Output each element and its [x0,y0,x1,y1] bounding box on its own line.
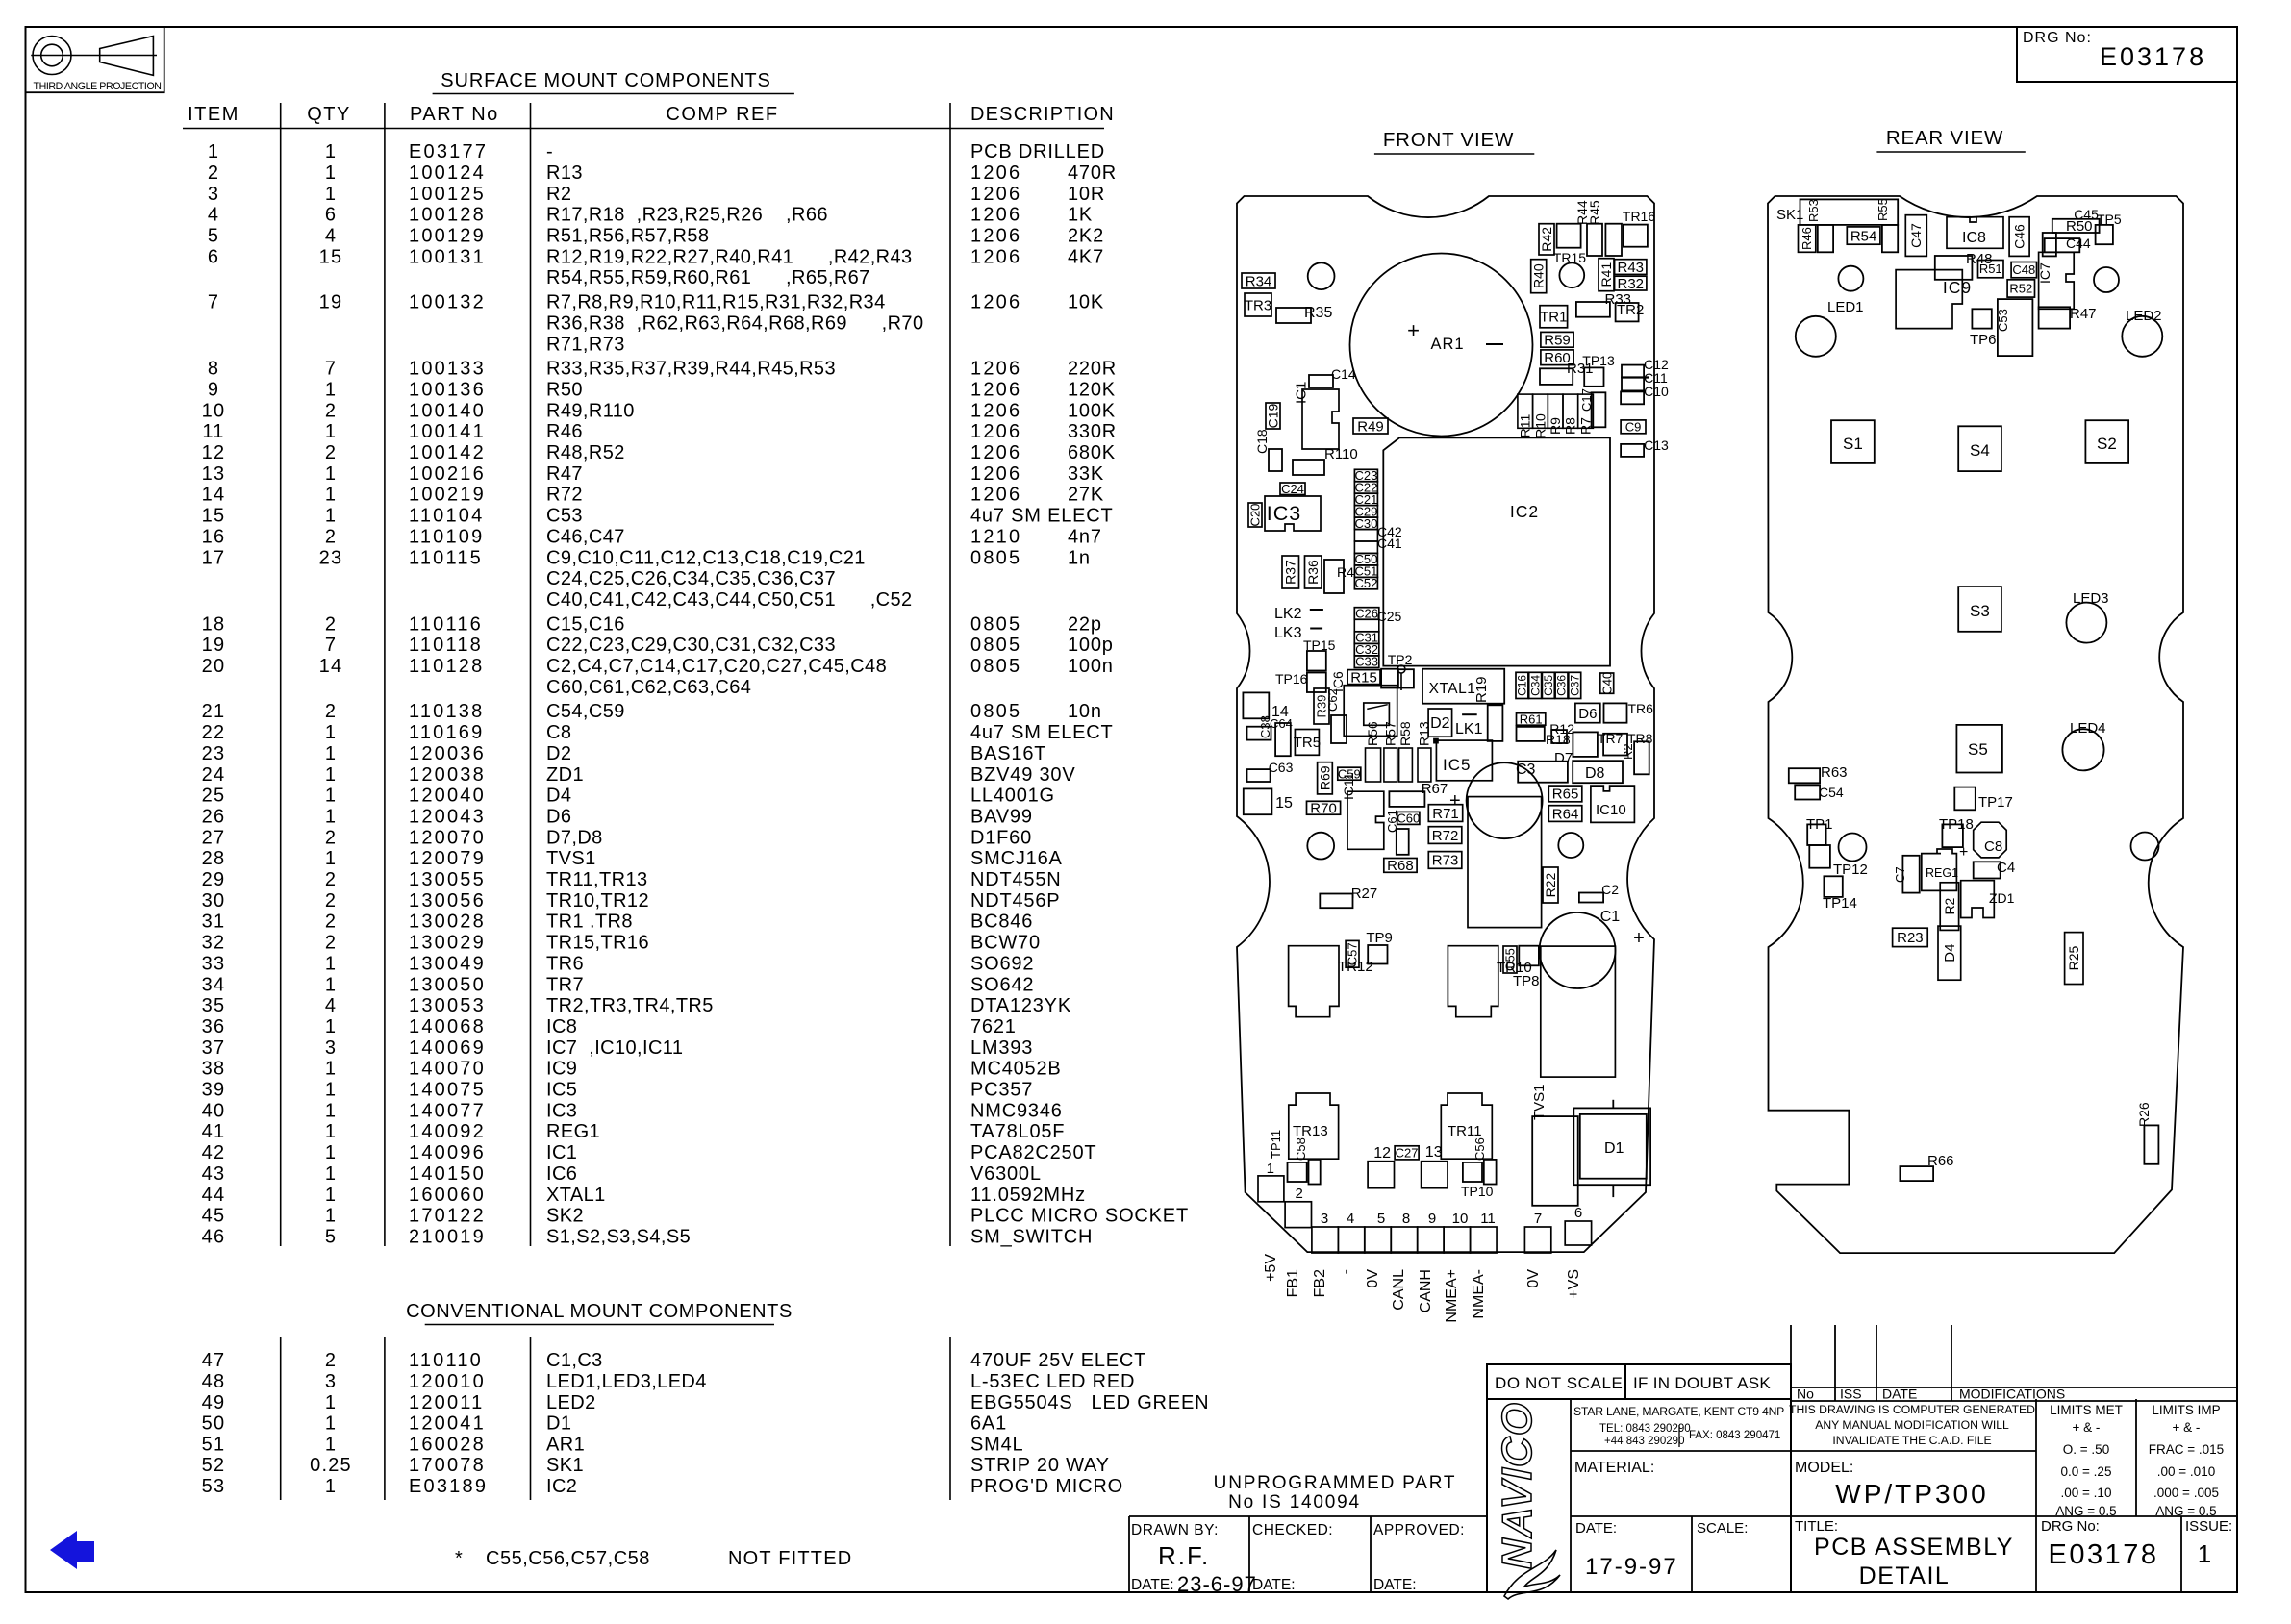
svg-text:46: 46 [202,1226,226,1247]
svg-text:7: 7 [1534,1211,1542,1227]
resistor R69 label [1318,762,1333,794]
svg-text:1: 1 [325,463,337,485]
svg-text:STRIP 20 WAY: STRIP 20 WAY [970,1455,1110,1476]
svg-text:12: 12 [1373,1145,1391,1162]
LED4 [2062,729,2103,770]
svg-text:C1: C1 [1600,909,1621,925]
svg-text:LIMITS IMP: LIMITS IMP [2152,1403,2220,1417]
svg-text:DETAIL: DETAIL [1859,1562,1951,1589]
svg-text:R110: R110 [1324,446,1358,462]
link LK1 [1462,713,1477,715]
svg-text:DATE:: DATE: [1373,1577,1417,1593]
svg-text:31: 31 [202,912,226,933]
resistor R44 [1587,224,1602,256]
svg-text:14: 14 [319,656,343,677]
svg-text:INVALIDATE THE C.A.D. FILE: INVALIDATE THE C.A.D. FILE [1832,1434,1991,1447]
svg-text:TEL: 0843 290290: TEL: 0843 290290 [1599,1423,1691,1435]
svg-text:9: 9 [208,379,219,400]
svg-text:IC5: IC5 [1443,756,1471,774]
svg-text:R9: R9 [1548,417,1563,435]
zener ZD1 [1961,881,1995,918]
capacitor C59 label [1338,767,1361,780]
opto IC5 [1436,740,1492,781]
svg-text:THIRD ANGLE PROJECTION: THIRD ANGLE PROJECTION [34,81,162,92]
LED3 [2066,603,2106,643]
svg-text:E03178: E03178 [2049,1539,2159,1570]
svg-text:SO692: SO692 [970,953,1034,974]
svg-text:XTAL1: XTAL1 [1429,681,1476,697]
svg-text:5: 5 [1377,1211,1385,1227]
resistor R25 label [2065,933,2083,985]
third angle projection icon frustum [100,37,154,76]
svg-text:LED2: LED2 [546,1392,596,1413]
svg-text:C15,C16: C15,C16 [546,613,625,635]
svg-text:D4: D4 [1942,944,1958,962]
resistor R18 [1551,730,1567,743]
svg-text:3: 3 [208,184,219,205]
svg-text:TR6: TR6 [1628,701,1654,716]
svg-text:R33,R35,R37,R39,R44,R45,R53: R33,R35,R37,R39,R44,R45,R53 [546,359,836,380]
svg-text:2: 2 [325,400,337,421]
svg-text:10: 10 [1452,1211,1469,1227]
svg-text:C25: C25 [1377,609,1402,624]
capacitor C10 [1621,391,1644,404]
component small [1247,727,1271,740]
svg-text:11.0592MHz: 11.0592MHz [970,1185,1086,1206]
svg-text:6: 6 [325,205,337,226]
svg-text:4: 4 [325,995,337,1016]
material box [1571,1515,1791,1517]
svg-text:8: 8 [208,359,219,380]
component square [1324,560,1344,593]
svg-text:TR3: TR3 [1245,297,1271,313]
svg-text:2: 2 [325,890,337,912]
svg-text:R56: R56 [1365,721,1380,746]
SMT header underline [183,128,1104,130]
svg-text:130049: 130049 [409,953,486,974]
capacitor box (unlabelled) [1354,541,1377,553]
svg-text:130050: 130050 [409,974,486,995]
svg-text:19: 19 [319,292,343,313]
connector pin square 9 [1471,1227,1497,1253]
navico column [1570,1399,1572,1592]
svg-text:R57: R57 [1382,721,1397,746]
conventional column lines [280,1337,282,1500]
svg-text:NMEA-: NMEA- [1471,1269,1487,1319]
svg-text:C7: C7 [1893,866,1907,883]
svg-text:120043: 120043 [409,806,486,827]
svg-text:48: 48 [202,1371,226,1392]
svg-text:120038: 120038 [409,764,486,786]
svg-text:D8: D8 [1585,765,1605,782]
svg-text:C40,C41,C42,C43,C44,C50,C51: C40,C41,C42,C43,C44,C50,C51 ,C52 [546,589,913,611]
svg-text:E03189: E03189 [409,1476,488,1497]
svg-text:100129: 100129 [409,226,486,247]
svg-text:LK2: LK2 [1274,606,1302,622]
capacitor C17 [1592,392,1606,427]
svg-text:TR13: TR13 [1293,1123,1328,1139]
svg-text:TR16: TR16 [1623,209,1655,224]
svg-text:R.F.: R.F. [1158,1541,1210,1570]
resistor R61 body [1517,726,1545,741]
switch S3 [1958,587,2001,632]
capacitor C33 label [1354,656,1379,668]
component by TP2 a [1381,669,1398,688]
svg-text:IC9: IC9 [1943,278,1972,297]
svg-text:TP9: TP9 [1366,930,1393,946]
svg-text:100132: 100132 [409,292,486,313]
svg-text:1: 1 [325,953,337,974]
svg-text:R7,R8,R9,R10,R11,R15,R31,R32,R: R7,R8,R9,R10,R11,R15,R31,R32,R34 [546,292,886,313]
svg-text:R23: R23 [1897,930,1924,946]
svg-text:2: 2 [325,442,337,463]
diode D4 label [1938,926,1961,980]
svg-text:2: 2 [1296,1186,1303,1202]
resistor R15 label [1347,670,1380,685]
svg-text:100131: 100131 [409,246,486,267]
capacitor C46 label [2009,217,2029,257]
svg-text:S4: S4 [1970,441,1990,460]
svg-text:C30: C30 [1354,516,1377,531]
resistor R10 [1533,394,1548,428]
svg-text:+ & -: + & - [2073,1420,2101,1435]
svg-text:32: 32 [202,933,226,954]
svg-text:C9,C10,C11,C12,C13,C18,C19,C21: C9,C10,C11,C12,C13,C18,C19,C21 [546,547,866,568]
svg-text:PART No: PART No [410,104,499,125]
svg-text:TR12: TR12 [1338,959,1373,975]
svg-text:R8: R8 [1563,417,1578,435]
svg-text:1: 1 [325,162,337,184]
capacitor C9 label [1621,420,1646,434]
resistor R56 [1366,748,1381,782]
regulator REG1 [1922,849,1957,890]
svg-text:3: 3 [325,1037,337,1059]
svg-text:ISSUE:: ISSUE: [2185,1518,2232,1535]
capacitor C7 [1902,856,1919,893]
connector pin 7 [1524,1227,1550,1253]
svg-text:UNPROGRAMMED PART: UNPROGRAMMED PART [1214,1473,1457,1493]
svg-text:130029: 130029 [409,933,486,954]
transistor TR1 label [1540,306,1568,328]
svg-text:10K: 10K [1068,292,1104,313]
capacitor C36 label [1555,672,1568,698]
svg-text:PLCC MICRO SOCKET: PLCC MICRO SOCKET [970,1206,1189,1227]
svg-text:21: 21 [202,701,226,722]
svg-text:C2: C2 [1601,882,1619,897]
switch S1 [1831,420,1875,463]
capacitor C19 label [1266,403,1280,429]
svg-text:0805: 0805 [970,547,1021,568]
capacitor C2 [1579,893,1603,903]
svg-text:.000 = .005: .000 = .005 [2153,1486,2219,1500]
capacitor C8 [1974,822,2007,858]
connector pin 1 [1258,1176,1284,1202]
svg-text:L-53EC LED RED: L-53EC LED RED [970,1371,1135,1392]
svg-text:CANL: CANL [1391,1269,1407,1311]
svg-text:R36,R38 ,R62,R63,R64,R68,R69: R36,R38 ,R62,R63,R64,R68,R69 ,R70 [546,312,923,334]
svg-text:15: 15 [319,246,343,267]
svg-text:DESCRIPTION: DESCRIPTION [970,104,1115,125]
diode D7 [1518,762,1568,783]
svg-text:FAX: 0843 290471: FAX: 0843 290471 [1689,1430,1780,1441]
svg-text:R49: R49 [1357,418,1384,435]
svg-text:6A1: 6A1 [970,1413,1007,1435]
svg-text:1: 1 [325,1100,337,1121]
svg-text:V6300L: V6300L [970,1163,1042,1185]
switch S2 [2085,420,2128,463]
DRG No box [2017,27,2237,82]
trimpot AR1 [1350,254,1533,437]
svg-text:ANY MANUAL MODIFICATION WILL: ANY MANUAL MODIFICATION WILL [1815,1418,2009,1432]
svg-text:140075: 140075 [409,1080,486,1101]
comparator IC7 [2039,252,2075,309]
svg-text:7: 7 [208,292,219,313]
connector pin square 4 [1338,1227,1364,1253]
svg-text:4n7: 4n7 [1068,526,1102,547]
svg-text:2: 2 [325,933,337,954]
svg-text:1: 1 [325,1121,337,1142]
svg-text:R43: R43 [1617,260,1644,276]
svg-text:2: 2 [325,1350,337,1371]
svg-text:No IS 140094: No IS 140094 [1228,1492,1361,1512]
svg-text:D4: D4 [546,786,571,807]
svg-text:TR11,TR13: TR11,TR13 [546,869,648,890]
svg-text:R50: R50 [546,379,583,400]
svg-text:BAS16T: BAS16T [970,743,1046,764]
svg-text:NAVICO: NAVICO [1494,1402,1541,1569]
svg-text:5: 5 [325,1226,337,1247]
transistor TR16 [1624,225,1648,247]
resistor R57 [1384,748,1397,782]
svg-text:LK1: LK1 [1455,721,1483,737]
transistor TR5 label [1295,730,1319,756]
svg-text:C54,C59: C54,C59 [546,701,625,722]
svg-text:35: 35 [202,995,226,1016]
modifications table header [1791,1387,2237,1388]
svg-text:AR1: AR1 [1430,336,1464,353]
testpoint TP6 [1972,309,1991,328]
svg-text:38: 38 [202,1059,226,1080]
svg-text:DRG No:: DRG No: [2041,1518,2100,1535]
svg-text:110104: 110104 [409,506,484,527]
resistor R50 [2043,233,2056,256]
svg-text:140092: 140092 [409,1121,486,1142]
svg-text:110116: 110116 [409,613,483,635]
svg-text:140096: 140096 [409,1142,486,1163]
svg-text:R73: R73 [1432,853,1459,869]
svg-text:C47: C47 [1908,223,1924,248]
svg-text:R40: R40 [1531,263,1547,288]
svg-text:IC8: IC8 [1962,230,1986,246]
resistor R65 label [1548,786,1582,802]
svg-text:IC3: IC3 [1267,502,1301,525]
svg-text:R2: R2 [1942,897,1957,914]
svg-text:S2: S2 [2097,435,2117,453]
svg-text:110138: 110138 [409,701,484,722]
svg-text:1: 1 [325,786,337,807]
svg-text:C35: C35 [1542,675,1555,696]
svg-text:R15: R15 [1350,669,1377,686]
svg-text:140070: 140070 [409,1059,486,1080]
connector pin 6 [1565,1221,1591,1245]
svg-text:R13: R13 [546,162,583,184]
capacitor C13 [1621,444,1644,457]
resistor R22 label [1543,867,1558,903]
svg-text:SK2: SK2 [546,1206,584,1227]
svg-text:29: 29 [202,869,226,890]
svg-text:+VS: +VS [1566,1269,1582,1299]
capacitor C40 label [1600,673,1614,693]
svg-text:130055: 130055 [409,869,486,890]
testpoint TP2 pad [1397,665,1405,673]
svg-text:TR11: TR11 [1448,1123,1482,1139]
capacitor C35 label [1542,672,1554,698]
svg-text:R25: R25 [2066,945,2081,970]
svg-text:BAV99: BAV99 [970,806,1033,827]
svg-text:1: 1 [325,421,337,442]
capacitor C12 [1622,365,1644,378]
svg-text:23-6-97: 23-6-97 [1177,1572,1257,1596]
diode D6 label [1575,703,1600,722]
svg-text:C16: C16 [1516,675,1529,696]
svg-text:6: 6 [208,246,219,267]
bottom row boxes [1791,1515,2237,1517]
svg-text:10R: 10R [1068,184,1105,205]
svg-text:+5V: +5V [1263,1254,1279,1282]
capacitor C63 [1247,769,1271,782]
svg-text:100141: 100141 [409,421,486,442]
svg-text:PCA82C250T: PCA82C250T [970,1142,1096,1163]
resistor R48 [1935,256,1973,280]
svg-text:IC7 ,IC10,IC11: IC7 ,IC10,IC11 [546,1037,683,1059]
third angle projection icon axis line [31,55,157,57]
component by TP2 b [1398,669,1414,687]
svg-text:R71: R71 [1432,806,1459,822]
transistor TR7 [1603,734,1627,756]
svg-text:TR2: TR2 [1617,302,1644,318]
svg-text:D1: D1 [546,1413,571,1435]
svg-text:C54: C54 [1819,785,1844,800]
svg-text:SM4L: SM4L [970,1434,1023,1455]
svg-text:36: 36 [202,1016,226,1037]
svg-text:TR7: TR7 [1598,731,1624,746]
svg-text:CANH: CANH [1418,1269,1434,1312]
svg-text:REG1: REG1 [1926,866,1958,880]
svg-text:1: 1 [325,974,337,995]
svg-text:10n: 10n [1068,701,1102,722]
svg-text:SK1: SK1 [546,1455,584,1476]
svg-text:C2,C4,C7,C14,C17,C20,C27,C45,C: C2,C4,C7,C14,C17,C20,C27,C45,C48 [546,656,887,677]
svg-text:41: 41 [202,1121,226,1142]
capacitor C55 label [1503,946,1517,973]
svg-text:120010: 120010 [409,1371,486,1392]
svg-text:4: 4 [208,205,219,226]
IC6 optocoupler [1344,686,1397,737]
svg-text:2: 2 [325,869,337,890]
svg-text:C22,C23,C29,C30,C31,C32,C33: C22,C23,C29,C30,C31,C32,C33 [546,635,836,656]
resistor R9 [1548,394,1563,428]
svg-text:1: 1 [1267,1161,1274,1177]
svg-text:LK3: LK3 [1274,625,1302,641]
svg-text:SCALE:: SCALE: [1697,1520,1748,1537]
svg-text:R72: R72 [1432,828,1459,844]
svg-text:470UF 25V ELECT: 470UF 25V ELECT [970,1350,1146,1371]
svg-text:TR15,TR16: TR15,TR16 [546,933,649,954]
capacitor C50 label [1354,553,1377,564]
svg-text:R11: R11 [1518,413,1533,437]
svg-text:REAR VIEW: REAR VIEW [1886,127,2003,149]
svg-text:O. = .50: O. = .50 [2063,1442,2109,1457]
blue navigation arrow [50,1531,94,1569]
limits met box [2035,1399,2037,1591]
resistor R21 [1634,741,1649,774]
svg-text:130053: 130053 [409,995,486,1016]
resistor R64 label [1548,806,1582,822]
svg-text:LED1: LED1 [1827,299,1864,315]
svg-text:IC2: IC2 [1510,502,1539,521]
drawn by / checked / approved row [1129,1515,1487,1517]
svg-text:D7: D7 [1554,750,1573,766]
resistor R31 [1540,368,1573,385]
svg-text:2K2: 2K2 [1068,226,1104,247]
svg-text:WP/TP300: WP/TP300 [1835,1479,1988,1509]
svg-text:SO642: SO642 [970,974,1034,995]
svg-text:1: 1 [325,141,337,162]
svg-text:+: + [1633,928,1645,949]
svg-text:+ & -: + & - [2173,1420,2201,1435]
svg-text:IC10: IC10 [1596,802,1626,818]
capacitor C48 label [2011,262,2036,278]
svg-text:1: 1 [325,379,337,400]
svg-text:39: 39 [202,1080,226,1101]
testpoint TP15 [1307,651,1326,671]
svg-text:.00 = .10: .00 = .10 [2061,1486,2112,1500]
mounting hole top-right [1559,262,1584,287]
svg-text:QTY: QTY [307,104,351,125]
svg-text:2: 2 [325,526,337,547]
svg-text:140150: 140150 [409,1163,486,1185]
svg-text:ISS: ISS [1840,1387,1862,1402]
svg-text:R47: R47 [2070,306,2097,322]
svg-text:15: 15 [1275,795,1293,812]
resistor R63 [1789,768,1820,783]
svg-text:27K: 27K [1068,485,1104,506]
capacitor C60 label [1397,812,1420,824]
svg-text:50: 50 [202,1413,226,1435]
svg-text:COMP REF: COMP REF [666,104,778,125]
svg-text:170078: 170078 [409,1455,486,1476]
svg-text:IF IN DOUBT ASK: IF IN DOUBT ASK [1633,1374,1771,1392]
svg-text:IC1: IC1 [546,1142,577,1163]
svg-text:140068: 140068 [409,1016,486,1037]
svg-text:IC1: IC1 [1294,382,1310,404]
crystal XTAL1 [1422,669,1504,704]
svg-text:1: 1 [325,1434,337,1455]
svg-text:120041: 120041 [409,1413,486,1435]
svg-text:PC357: PC357 [970,1080,1033,1101]
suppressor TVS1 [1532,1116,1578,1206]
resistor R67 [1389,791,1424,807]
svg-text:SMCJ16A: SMCJ16A [970,848,1063,869]
resistor R73 label [1428,852,1462,869]
resistor R66 [1900,1166,1933,1181]
svg-text:CONVENTIONAL MOUNT COMPONENTS: CONVENTIONAL MOUNT COMPONENTS [406,1301,793,1322]
diode D1 [1573,1108,1650,1185]
svg-text:C34: C34 [1528,675,1542,696]
svg-text:100140: 100140 [409,400,486,421]
svg-text:C37: C37 [1568,675,1581,696]
svg-text:TR2,TR3,TR4,TR5: TR2,TR3,TR4,TR5 [546,995,714,1016]
